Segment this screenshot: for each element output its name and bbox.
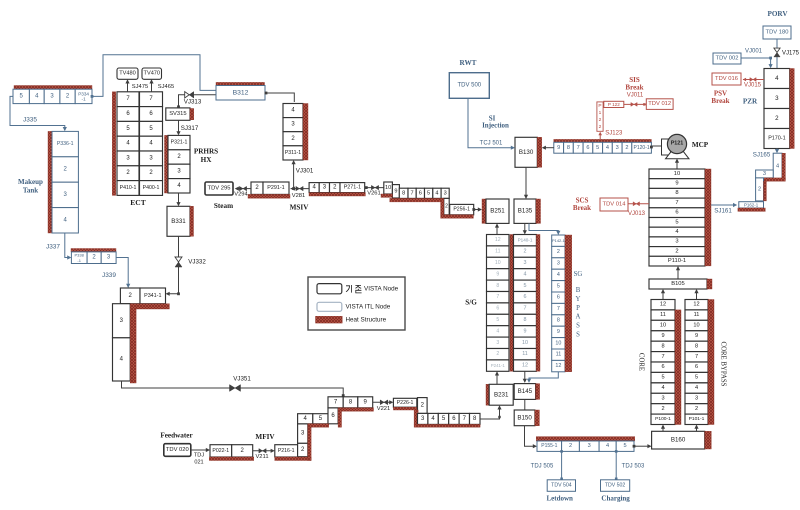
wire chain to B130 arrow [543,147,554,149]
wire B160 to columns [662,426,664,431]
svg-text:3: 3 [524,260,527,266]
wire B135 down into P140 column [524,223,526,233]
wire TDJ 503 to TDV 502 [615,450,618,453]
wire J335 from P334 chain to Makeup Tank [10,96,65,130]
heat structure above P155 chain [536,437,635,441]
svg-text:B160: B160 [671,437,686,444]
heat structure right of CORE BYPASS column [708,300,714,425]
svg-text:PRHRS: PRHRS [194,147,218,155]
svg-text:12: 12 [660,302,666,308]
svg-text:10: 10 [660,323,666,329]
svg-text:021: 021 [194,460,203,466]
svg-text:8: 8 [661,343,664,349]
svg-text:7: 7 [496,294,499,300]
wire VJ001 from TDV002 to PZR top [741,58,771,67]
svg-text:2: 2 [695,406,698,412]
svg-text:P311-1: P311-1 [285,150,301,156]
svg-text:-1: -1 [82,97,87,102]
svg-text:10: 10 [555,340,561,346]
svg-text:RWT: RWT [460,59,477,67]
heat structure under 3-8 chain [414,424,480,427]
legend item existing VISTA node [317,284,342,294]
heat structure below P341 row [124,304,169,309]
wire TCJ 501 to B130 [468,98,514,147]
svg-text:4: 4 [695,385,698,391]
wire VJ301 from steam line up into P311-1 [293,162,295,189]
svg-text:VJ332: VJ332 [188,259,206,266]
svg-text:Tank: Tank [23,187,38,195]
heat structure right of P341 column [130,304,136,383]
svg-text:7: 7 [557,306,560,312]
svg-text:12: 12 [555,363,561,369]
heat structure under 3-4 corner [764,178,786,181]
svg-text:P256-1: P256-1 [453,207,470,213]
wire SJ165 from P170-1 down [776,149,778,152]
heat structure right of B105 [707,279,712,289]
svg-text:11: 11 [660,312,666,318]
wire from P334-1 to top header to B312 [91,95,94,98]
node P 122 horizontal [604,101,624,107]
svg-text:10: 10 [674,171,680,177]
heat structure right of B135 [536,199,541,223]
node P022-1 and 2 [210,445,232,457]
svg-text:5: 5 [624,443,627,449]
svg-text:9: 9 [394,188,397,194]
wire B105 to CORE columns [662,291,664,300]
node P162-1 [739,202,764,208]
svg-text:7: 7 [661,354,664,360]
ECT right column P400 [140,92,163,107]
node P256-1 [450,204,474,214]
svg-text:HX: HX [201,156,213,164]
heat structure above P120 chain [554,139,652,142]
svg-text:B105: B105 [671,281,685,287]
node TDV 020 [164,444,191,457]
svg-text:3: 3 [496,340,499,346]
node 2 of P341 [120,288,140,304]
node TDV 180 [763,26,791,39]
heat structure left of B231 [486,384,489,405]
heat structure right of PZR [790,69,795,149]
heat structure right of B150 [535,410,540,426]
svg-text:11: 11 [694,312,700,318]
svg-text:P216-1: P216-1 [278,448,295,454]
svg-text:6: 6 [586,145,589,151]
svg-text:5: 5 [496,317,499,323]
svg-text:10: 10 [385,185,391,191]
wire J339 down to node 2 [116,258,128,287]
wire P155 to B160 [633,445,636,448]
node chain 9-2 and P120-1 [554,142,564,153]
node P334-1 [75,89,92,103]
svg-text:7: 7 [524,306,527,312]
heat structure left of P140 column [510,235,514,372]
PZR column 4-3-2-P170-1 [764,69,790,89]
node P338-1 chain [71,252,87,264]
svg-text:TDV 180: TDV 180 [766,30,789,36]
svg-text:6: 6 [524,294,527,300]
svg-text:P155-1: P155-1 [541,443,557,449]
svg-text:P226-1: P226-1 [397,400,414,406]
ECT left column P410 [117,92,139,107]
wire P120-1 to pump [650,146,653,149]
svg-text:P170-1: P170-1 [768,136,785,142]
svg-text:TDV 002: TDV 002 [716,56,739,62]
svg-text:TDV 020: TDV 020 [166,447,189,453]
svg-text:TV470: TV470 [144,71,160,77]
svg-text:B150: B150 [517,414,532,421]
wire SJ465 up to TV470 [151,81,153,92]
svg-text:P: P [598,103,601,109]
svg-text:TDV 295: TDV 295 [208,186,231,192]
svg-text:2: 2 [661,406,664,412]
svg-text:TDJ 505: TDJ 505 [531,464,554,470]
svg-text:VISTA ITL Node: VISTA ITL Node [346,304,391,311]
svg-text:P338: P338 [75,253,85,258]
wire B145 to B150 [524,399,526,410]
svg-text:5: 5 [661,375,664,381]
svg-text:9: 9 [675,181,678,187]
heat structure under P216/2 [275,457,311,461]
node TV470 [142,68,162,79]
svg-text:10: 10 [522,340,528,346]
pump P121 MCP [662,139,671,155]
svg-text:4: 4 [606,145,609,151]
node P341-1 [140,288,166,304]
node B160 [652,431,705,449]
node 5 [313,414,328,424]
svg-text:PORV: PORV [767,10,788,18]
node TDV 502 [601,480,630,492]
svg-text:P 122: P 122 [608,102,620,107]
node chain 8-7-6-5-4-3 [399,188,408,198]
heat structure above P334 chain [14,86,92,90]
heat structure above P338 chain [71,249,116,252]
heat structure right of B145 [536,384,540,400]
svg-text:8: 8 [675,190,678,196]
svg-text:5: 5 [675,219,678,225]
svg-text:11: 11 [556,352,562,358]
wire V294 valve to TDV295 [236,188,251,190]
svg-text:Injection: Injection [482,122,509,130]
node B145 [514,384,535,400]
svg-text:12: 12 [522,363,528,369]
feedwater staircase node 2 [298,443,308,457]
svg-text:2: 2 [599,124,602,130]
node 6 [328,408,338,424]
svg-text:3: 3 [675,239,678,245]
node 8 [343,397,358,408]
svg-text:3: 3 [444,190,447,196]
svg-text:6: 6 [419,190,422,196]
svg-text:5: 5 [427,190,430,196]
svg-text:J335: J335 [23,116,37,123]
node TV480 [117,68,138,79]
svg-text:TDV 014: TDV 014 [603,202,627,208]
heat structure below P291 chain [248,194,290,198]
svg-text:P022-1: P022-1 [212,448,229,454]
heat structure right of B331 [190,206,194,236]
wire with valve VJ351 to feedwater line [122,381,344,395]
svg-text:2: 2 [625,145,628,151]
svg-text:VJ313: VJ313 [184,99,202,106]
valve VJ332 [175,257,182,262]
heat structure below P271 chain [309,193,365,196]
svg-text:TCJ 501: TCJ 501 [480,140,503,146]
node B331 [167,206,190,236]
node B150 [514,410,535,426]
heat structure right of CORE column [675,310,681,425]
P142 column P142-1,2..12 [552,235,565,246]
wire valve V211 [253,450,274,452]
svg-text:V294: V294 [234,191,248,197]
svg-text:ECT: ECT [130,198,145,207]
node 2 vertical [444,198,449,214]
heat structure left of Makeup Tank [48,131,52,233]
svg-text:VJ301: VJ301 [296,168,314,175]
legend item heat structure [316,316,343,323]
svg-text:MSIV: MSIV [290,204,310,212]
heat structure right of P140 column [536,235,540,372]
node B251 [486,199,509,223]
wire B135 to P142 column blue [529,223,558,233]
svg-text:Feedwater: Feedwater [160,432,193,440]
heat structure under 8-9 [342,408,374,411]
wire column top into pump [676,160,678,169]
svg-text:9: 9 [496,271,499,277]
svg-text:S/G: S/G [465,298,477,306]
CORE BYPASS column 12..2,P101-1 [685,300,708,310]
svg-text:3: 3 [661,396,664,402]
svg-text:SV315: SV315 [169,111,186,117]
wire P140 down to B145 [524,371,526,381]
svg-text:4: 4 [557,272,560,278]
svg-text:9: 9 [695,333,698,339]
svg-text:Charging: Charging [601,494,630,502]
svg-text:7: 7 [411,190,414,196]
wire valve VJ175 to PZR [776,39,778,69]
svg-text:P336-1: P336-1 [57,141,74,147]
svg-text:CORE BYPASS: CORE BYPASS [720,342,727,387]
node B231 [489,384,513,405]
heat structure under P226-1 [393,407,416,410]
svg-text:6: 6 [675,210,678,216]
PRHRS HX column P321-1..4 [168,135,190,149]
svg-text:P271-1: P271-1 [344,185,361,191]
svg-text:6: 6 [661,364,664,370]
node TDV 504 [547,480,575,492]
svg-text:3: 3 [695,396,698,402]
svg-text:SJ123: SJ123 [605,130,623,136]
svg-text:P334: P334 [78,91,89,96]
svg-text:12: 12 [495,237,501,243]
wire SJ475 up to TV480 [127,81,129,92]
svg-text:P321-1: P321-1 [171,140,188,146]
svg-text:2: 2 [599,117,602,123]
wire SV315 to valve VJ313 and B312 [179,95,217,108]
P140 column P140-1,2..12 [514,235,537,246]
heat structure right of P311 [303,104,308,161]
wire chain to B231 [480,407,499,419]
heat structure right of node 4 [782,153,785,180]
heat structure right of B130 [537,137,541,167]
heat structure left of chain [414,410,418,424]
svg-text:TV480: TV480 [119,71,135,77]
heat structure above B312 [216,82,265,85]
P311 column 4-3-2-P311-1 [283,104,303,118]
svg-text:TDJ 503: TDJ 503 [622,464,645,470]
svg-text:9: 9 [557,145,560,151]
wire B130 down to B135 [525,167,527,197]
svg-text:S: S [576,332,580,339]
svg-text:3: 3 [616,145,619,151]
node P216-1 [275,445,298,457]
svg-text:3: 3 [557,261,560,267]
wire valve VJ332 to P341-1 [167,236,179,293]
svg-text:4: 4 [435,190,438,196]
svg-text:P291-1: P291-1 [267,185,284,191]
svg-text:2: 2 [775,115,779,122]
wire P142 down to B145 blue [529,372,558,382]
svg-text:2: 2 [557,249,560,255]
svg-text:3: 3 [588,443,591,449]
svg-text:TDV 502: TDV 502 [605,483,626,489]
svg-text:Break: Break [711,97,729,105]
node TDV 016 [712,73,741,85]
svg-text:2: 2 [496,351,499,357]
node 4 [298,414,313,424]
heat structure below P022 chain [209,457,254,461]
node 3 of P341 [113,304,131,338]
node 10 [384,182,393,194]
svg-text:10: 10 [693,323,699,329]
svg-text:P142-1: P142-1 [552,238,566,243]
svg-text:2: 2 [758,186,761,192]
svg-text:Heat Structure: Heat Structure [346,317,387,324]
svg-text:1: 1 [599,110,602,116]
svg-text:6: 6 [557,295,560,301]
wire SJ161 to P162-1 [711,204,736,206]
svg-text:4: 4 [524,271,527,277]
svg-text:P241-1: P241-1 [491,363,506,368]
svg-text:P: P [576,305,580,312]
node P226-1 [393,398,416,407]
svg-text:9: 9 [661,333,664,339]
heat structure under node 10 [381,194,392,197]
heat structure right of P110 column [705,169,711,266]
svg-text:7: 7 [675,200,678,206]
svg-text:VJ011: VJ011 [627,92,644,98]
node 2 and P291-1 [251,182,263,194]
Makeup Tank column P336-1..4 [52,131,78,156]
svg-text:B145: B145 [518,388,533,395]
heat structure right of P142 column [565,235,572,372]
svg-text:SJ465: SJ465 [158,84,174,90]
wire P110-1 down to B105 [677,268,679,280]
wire P256-1 to B251 [472,208,475,211]
svg-text:A: A [576,314,581,321]
svg-text:P410-1: P410-1 [120,185,137,191]
svg-text:B331: B331 [171,218,186,225]
svg-text:4: 4 [775,75,779,82]
heat structure under 4-5 [309,424,329,427]
heat structure right of SV315 [190,109,194,120]
svg-text:SJ475: SJ475 [132,84,148,90]
svg-text:4: 4 [606,443,609,449]
node TDV 295 [205,182,233,195]
svg-text:5: 5 [557,283,560,289]
svg-text:TDV 504: TDV 504 [551,483,572,489]
svg-text:4: 4 [661,385,664,391]
legend item VISTA ITL node [317,302,342,311]
svg-text:7: 7 [577,145,580,151]
heat structure left of node 2 [441,198,444,214]
node TDV 500 [449,73,489,99]
node 4 of P341 [113,338,131,381]
svg-text:Break: Break [625,84,643,92]
svg-text:SJ161: SJ161 [714,208,732,215]
svg-text:P140-1: P140-1 [518,238,533,243]
svg-text:P110-1: P110-1 [668,258,686,264]
svg-text:B130: B130 [519,149,534,156]
svg-text:B312: B312 [233,89,249,96]
svg-text:8: 8 [557,318,560,324]
svg-text:B: B [576,287,581,294]
svg-text:VJ015: VJ015 [744,83,762,89]
wire TDJ 021 [191,449,209,451]
svg-text:VISTA Node: VISTA Node [364,286,399,293]
S/G left column 12..2,P241-1 [487,235,510,246]
svg-text:MFIV: MFIV [255,433,275,441]
valve VJ351 [230,385,241,392]
svg-text:CORE: CORE [638,353,645,371]
svg-text:VJ175: VJ175 [782,51,800,57]
heat structure right of node 2 [764,181,767,201]
node B130 [515,137,537,167]
node chain 3-8 [418,413,428,424]
svg-text:11: 11 [522,351,528,357]
svg-text:TDV 016: TDV 016 [715,76,738,82]
valve VJ175 [774,48,780,52]
node TDV 002 [713,53,741,64]
svg-text:J339: J339 [102,272,116,279]
node 3 of P162 [756,170,774,178]
heat structure right of B160 [705,431,712,449]
svg-text:7: 7 [695,354,698,360]
heat structure left of PRHRS HX column [165,135,169,193]
node P122 vertical [597,102,603,131]
svg-text:2: 2 [524,249,527,255]
svg-text:11: 11 [495,249,500,255]
svg-text:P100-1: P100-1 [655,416,671,422]
svg-text:5: 5 [596,145,599,151]
svg-text:P341-1: P341-1 [144,293,161,299]
svg-text:8: 8 [402,190,405,196]
wire to valve VJ011 and TDV 012 [624,103,647,105]
svg-text:2: 2 [569,443,572,449]
P110 column 10..2,P110-1 [649,169,705,179]
svg-text:12: 12 [693,302,699,308]
node 9 [358,397,373,408]
heat structure under 9-3 chain [390,198,444,202]
wire SG column up into B251 [496,225,498,235]
svg-text:V211: V211 [255,454,268,460]
heat structure below P256-1 [441,215,474,218]
arrow PRHRS4 to B331 [178,193,180,205]
wire valve V281 between P291-1 and P271 chain [291,188,310,190]
svg-text:P120-1: P120-1 [634,145,650,151]
valve VJ013 [633,202,639,206]
